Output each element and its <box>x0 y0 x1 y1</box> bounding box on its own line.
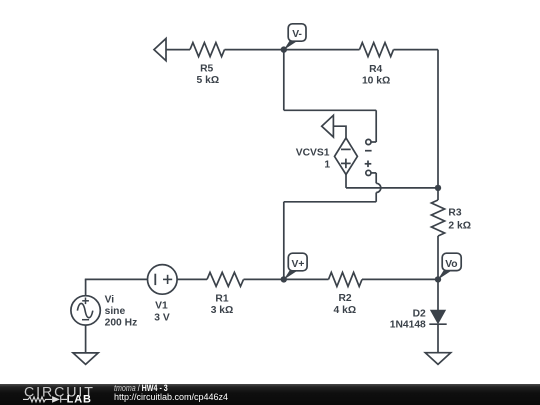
svg-text:Vi: Vi <box>105 295 115 306</box>
svg-text:R3: R3 <box>448 208 461 219</box>
svg-text:3 V: 3 V <box>154 313 170 324</box>
svg-text:D2: D2 <box>413 308 426 319</box>
svg-text:V+: V+ <box>291 259 304 270</box>
svg-text:4 kΩ: 4 kΩ <box>334 305 357 316</box>
svg-text:sine: sine <box>105 306 126 317</box>
svg-text:V1: V1 <box>155 301 168 312</box>
svg-text:VCVS1: VCVS1 <box>296 148 330 159</box>
svg-text:3 kΩ: 3 kΩ <box>211 305 234 316</box>
svg-text:2 kΩ: 2 kΩ <box>448 221 471 232</box>
svg-text:R4: R4 <box>369 64 382 75</box>
svg-text:R1: R1 <box>215 294 228 305</box>
svg-text:5 kΩ: 5 kΩ <box>197 75 220 86</box>
svg-text:R2: R2 <box>339 293 352 304</box>
svg-text:Vo: Vo <box>445 259 457 270</box>
svg-text:200 Hz: 200 Hz <box>105 317 138 328</box>
svg-text:10 kΩ: 10 kΩ <box>362 75 390 86</box>
svg-text:1: 1 <box>324 159 330 170</box>
svg-text:LAB: LAB <box>67 394 92 405</box>
svg-text:1N4148: 1N4148 <box>390 320 426 331</box>
svg-text:R5: R5 <box>200 64 213 75</box>
svg-text:V-: V- <box>292 29 302 40</box>
